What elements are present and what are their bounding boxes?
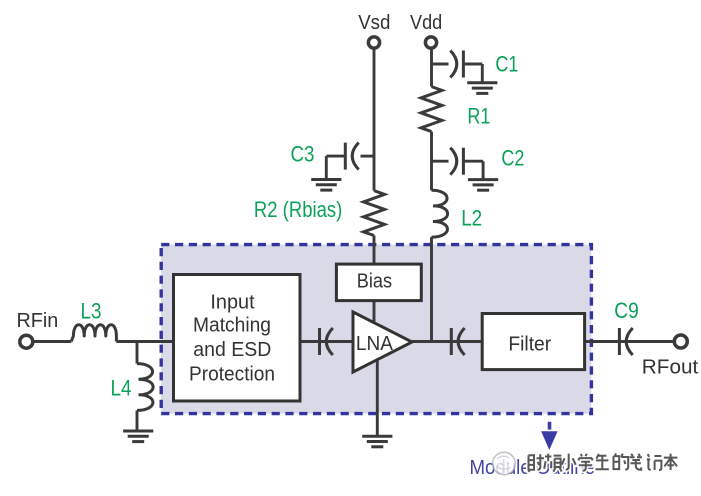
svg-text:R2 (Rbias): R2 (Rbias) [254, 197, 342, 222]
svg-text:LNA: LNA [356, 333, 394, 355]
svg-text:Input: Input [210, 291, 255, 313]
svg-text:C3: C3 [291, 142, 315, 167]
svg-text:C2: C2 [501, 145, 524, 170]
svg-text:C1: C1 [495, 52, 518, 77]
svg-text:Matching: Matching [193, 314, 271, 336]
svg-text:RFin: RFin [17, 310, 59, 332]
svg-text:Protection: Protection [189, 363, 275, 385]
svg-text:Vsd: Vsd [358, 12, 390, 34]
svg-text:C9: C9 [614, 298, 639, 323]
svg-text:Bias: Bias [357, 271, 392, 293]
svg-text:Vdd: Vdd [410, 12, 442, 34]
svg-text:Filter: Filter [508, 333, 551, 355]
svg-text:R1: R1 [467, 104, 490, 129]
svg-text:RFout: RFout [642, 357, 699, 379]
svg-text:L4: L4 [111, 376, 132, 401]
svg-text:and ESD: and ESD [193, 339, 271, 361]
svg-text:L2: L2 [461, 205, 482, 230]
svg-text:L3: L3 [81, 299, 102, 324]
